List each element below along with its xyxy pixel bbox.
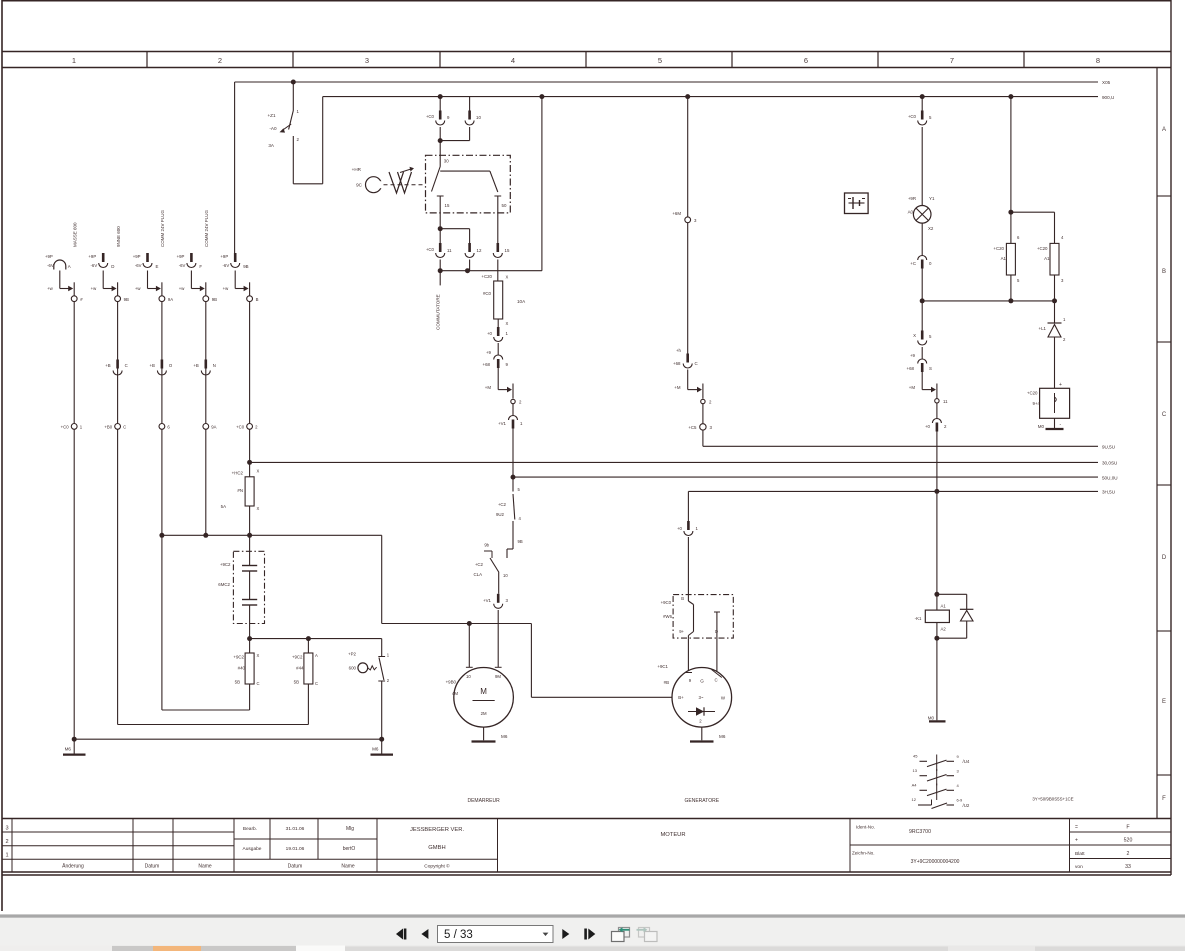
- wire from S1 to bus 15: [293, 97, 322, 184]
- svg-text:C: C: [123, 425, 126, 430]
- svg-text:#N: #N: [237, 488, 243, 493]
- wire branch 1 down: [73, 429, 75, 739]
- svg-text:+C0: +C0: [426, 114, 435, 119]
- svg-text:B: B: [681, 596, 684, 601]
- label branch 4: [204, 209, 209, 247]
- svg-text:M: M: [480, 687, 487, 696]
- svg-text:Ident-No.: Ident-No.: [856, 825, 875, 830]
- svg-text:+9B0: +9B0: [446, 680, 457, 685]
- svg-text:C: C: [125, 363, 128, 368]
- svg-text:5B: 5B: [235, 680, 240, 685]
- label DEMARREUR: [467, 798, 500, 804]
- svg-text:+68: +68: [483, 362, 491, 367]
- svg-text:G: G: [700, 679, 704, 684]
- plug circle +C5 3: [688, 404, 712, 430]
- svg-text:1: 1: [5, 853, 8, 859]
- wire loop to bus 15: [539, 94, 544, 271]
- svg-text:=: =: [1075, 825, 1078, 831]
- svg-text:X: X: [257, 506, 260, 511]
- svg-text:9+: 9+: [679, 629, 684, 634]
- wire fuse F5 to node: [249, 506, 251, 535]
- plug circle branch 1: [61, 424, 83, 430]
- plug circle branch 4: [203, 424, 217, 430]
- svg-text:N: N: [213, 363, 216, 368]
- connector pin 1: [487, 319, 509, 342]
- svg-text:5A: 5A: [221, 504, 226, 509]
- svg-text:6MC2: 6MC2: [218, 582, 230, 587]
- svg-text:2: 2: [1127, 851, 1130, 857]
- fuse F1: [233, 639, 259, 686]
- lamp Y1: [908, 196, 935, 231]
- svg-text:/U4: /U4: [963, 759, 970, 764]
- svg-text:GENERATORE: GENERATORE: [685, 798, 720, 804]
- connector pin 9: [483, 343, 509, 368]
- svg-text:X: X: [257, 469, 260, 474]
- svg-text:+9P: +9P: [133, 254, 141, 259]
- connector X2 pin 11: [426, 229, 452, 258]
- svg-text:C: C: [714, 678, 717, 683]
- svg-text:3Y+9C200000004200: 3Y+9C200000004200: [911, 859, 960, 865]
- svg-text:#40: #40: [238, 666, 246, 671]
- node circle branch 5: [247, 296, 259, 302]
- plug circle branch 3: [159, 424, 170, 430]
- svg-text:9B: 9B: [212, 297, 217, 302]
- svg-text:+B: +B: [105, 363, 111, 368]
- wire link below connectors: [438, 260, 542, 286]
- key symbol: [352, 167, 426, 193]
- connector branch 5 top: [220, 253, 248, 269]
- svg-text:12: 12: [912, 797, 917, 802]
- svg-text:Ausgabe: Ausgabe: [243, 846, 262, 852]
- node bus15 feed resistors: [1008, 94, 1013, 99]
- svg-text:-6V: -6V: [135, 263, 142, 268]
- relay K1 coil: [915, 592, 950, 638]
- svg-text:+: +: [1059, 382, 1062, 388]
- svg-text:X05: X05: [1102, 80, 1111, 85]
- svg-text:CLA: CLA: [473, 572, 482, 577]
- wire bus 30 (top): [235, 80, 1111, 85]
- svg-text:+9P: +9P: [177, 254, 185, 259]
- svg-text:#B: #B: [664, 680, 669, 685]
- svg-text:Name: Name: [198, 864, 212, 870]
- svg-text:+0: +0: [677, 526, 683, 531]
- wire to contact box: [687, 537, 689, 595]
- svg-text:+L1: +L1: [1039, 326, 1047, 331]
- sensor box B2: [1027, 382, 1070, 428]
- capacitor C1 enclosure: [233, 551, 264, 623]
- svg-text:+9C0: +9C0: [661, 600, 672, 605]
- svg-text:-6V: -6V: [179, 263, 186, 268]
- wire branch 2 to node: [91, 271, 118, 296]
- svg-text:+C: +C: [910, 261, 916, 266]
- node circle branch 2: [115, 296, 129, 302]
- connector X1 pin 9: [426, 97, 450, 125]
- svg-text:+B: +B: [193, 363, 199, 368]
- wire branch 5 to bus: [247, 429, 252, 477]
- svg-text:+9R: +9R: [908, 196, 916, 201]
- svg-text:A0: A0: [908, 210, 914, 215]
- connector pin 5b: [913, 301, 932, 345]
- svg-text:F: F: [1162, 796, 1166, 802]
- svg-text:+h: +h: [676, 348, 682, 353]
- svg-text:+9P: +9P: [45, 254, 53, 259]
- wire branch 3: [161, 302, 163, 424]
- ignition switch B1 enclosure: [426, 155, 511, 213]
- svg-text:-K1: -K1: [915, 616, 922, 621]
- wire bus 15 (top): [323, 95, 1115, 100]
- svg-text:4M: 4M: [452, 691, 458, 696]
- svg-text:13: 13: [913, 768, 918, 773]
- svg-text:D: D: [111, 264, 114, 269]
- wire diode to sensor: [1054, 337, 1056, 388]
- wire to lamp: [921, 127, 923, 206]
- svg-text:10: 10: [466, 674, 471, 679]
- fuse F2: [292, 639, 318, 686]
- svg-text:+M: +M: [485, 385, 492, 390]
- diode V2: [1039, 301, 1066, 342]
- wire joining connectors: [438, 127, 470, 143]
- ignition switch B1 contacts: [432, 155, 507, 213]
- wire branch 5: [249, 302, 251, 424]
- connector pin S: [907, 347, 932, 372]
- svg-text:COMM 24V PLUG: COMM 24V PLUG: [160, 209, 165, 247]
- svg-text:11: 11: [447, 248, 452, 253]
- svg-text:+9C2: +9C2: [220, 562, 231, 567]
- svg-text:+C0: +C0: [908, 114, 917, 119]
- fuse F3 10A: [481, 271, 526, 326]
- svg-text:+9P: +9P: [88, 254, 96, 259]
- node circle branch 1: [71, 296, 83, 302]
- svg-text:COMM 24V PLUG: COMM 24V PLUG: [204, 209, 209, 247]
- changeover contact CLA: [473, 541, 513, 578]
- svg-text:+HR: +HR: [352, 167, 362, 172]
- svg-text:+C5: +C5: [688, 425, 697, 430]
- ground M0 relay: [928, 638, 946, 721]
- node circle branch 3: [159, 296, 173, 302]
- svg-text:+C2: +C2: [475, 562, 484, 567]
- wire: [292, 82, 294, 111]
- node bus15 feed lamp: [920, 94, 925, 99]
- wire to resistor link node: [920, 269, 925, 304]
- svg-text:+C20: +C20: [993, 246, 1004, 251]
- svg-text:3Y+50/9B0S5S+1CE: 3Y+50/9B0S5S+1CE: [1032, 797, 1073, 802]
- svg-text:B: B: [256, 297, 259, 302]
- svg-text:33: 33: [1125, 864, 1131, 870]
- ground generator: [690, 727, 726, 741]
- wire branch 4 to node: [179, 271, 206, 296]
- wire bus 30,0SU: [250, 461, 1117, 466]
- svg-text:+B: +B: [150, 363, 156, 368]
- node circle 2: [701, 399, 712, 404]
- svg-text:M6: M6: [372, 747, 379, 752]
- wire branch 3 to node: [135, 271, 162, 296]
- svg-text:9A: 9A: [168, 297, 173, 302]
- label branch 3: [160, 209, 165, 247]
- svg-text:MOTEUR: MOTEUR: [660, 832, 685, 838]
- connector D+ feed: [677, 521, 699, 536]
- connector C: [673, 348, 698, 368]
- svg-text:E: E: [156, 264, 159, 269]
- svg-text:#W6: #W6: [663, 614, 672, 619]
- svg-text:+68: +68: [673, 361, 681, 366]
- wire bus to regulator contact: [687, 491, 689, 521]
- svg-text:8: 8: [1096, 56, 1100, 65]
- svg-text:-6V: -6V: [91, 263, 98, 268]
- svg-text:-A0: -A0: [269, 126, 277, 131]
- svg-text:X: X: [506, 321, 509, 326]
- wire lamp to connector: [921, 223, 923, 255]
- svg-text:9U,5U: 9U,5U: [1102, 445, 1115, 450]
- svg-text:4: 4: [511, 56, 515, 65]
- wire ground line M6: [72, 737, 385, 742]
- svg-text:A1: A1: [941, 604, 947, 609]
- wire branch 2 down to fuse F2: [118, 429, 309, 724]
- svg-text:X: X: [257, 653, 260, 658]
- wire node line: [159, 533, 381, 538]
- svg-text:+9C2: +9C2: [292, 655, 303, 660]
- regulator contact: [661, 595, 720, 672]
- svg-text:+C20: +C20: [481, 274, 492, 279]
- pushbutton S600: [348, 652, 390, 684]
- svg-text:19.01.06: 19.01.06: [286, 846, 305, 852]
- svg-text:11: 11: [943, 399, 948, 404]
- svg-text:M0: M0: [1038, 424, 1045, 429]
- svg-text:+9: +9: [486, 350, 492, 355]
- switch S2 (start interlock): [496, 477, 523, 544]
- svg-text:+V1: +V1: [483, 598, 491, 603]
- svg-text:-6V: -6V: [47, 263, 54, 268]
- wire branch 4: [205, 302, 207, 424]
- svg-text:M6: M6: [719, 734, 726, 739]
- connector branch 2 top: [88, 253, 114, 269]
- svg-text:9+4: 9+4: [1033, 401, 1041, 406]
- svg-text:50U,0U: 50U,0U: [1102, 475, 1118, 480]
- svg-text:Mlg: Mlg: [346, 826, 354, 832]
- svg-text:B+: B+: [678, 695, 684, 700]
- wire branch 2: [117, 302, 119, 424]
- svg-text:+C0: +C0: [61, 425, 70, 430]
- svg-text:3~: 3~: [698, 695, 703, 700]
- svg-text:#C0: #C0: [483, 291, 492, 296]
- node circle 11: [935, 399, 948, 404]
- svg-text:45: 45: [913, 754, 918, 759]
- wire down to resistors: [1008, 97, 1054, 244]
- resistor R2: [1037, 235, 1064, 283]
- ground M6 right: [371, 739, 394, 754]
- wire with arrow junction: [485, 368, 513, 399]
- svg-text:A: A: [315, 653, 318, 658]
- svg-text:+Z1: +Z1: [267, 113, 275, 118]
- ground M6 left: [63, 739, 86, 754]
- svg-text:5 / 33: 5 / 33: [444, 929, 473, 941]
- svg-text:DEMARREUR: DEMARREUR: [467, 798, 500, 804]
- svg-text:+w: +w: [179, 286, 186, 291]
- label branch 1: [72, 222, 77, 247]
- plug circle branch 2: [104, 424, 126, 430]
- svg-text:15: 15: [445, 203, 450, 208]
- svg-text:9NNE 600: 9NNE 600: [116, 226, 121, 247]
- svg-text:JESSBERGER VER.: JESSBERGER VER.: [410, 827, 465, 833]
- svg-text:#44: #44: [296, 666, 304, 671]
- svg-text:+C20: +C20: [1027, 391, 1038, 396]
- svg-text:+HC2: +HC2: [232, 471, 244, 476]
- svg-text:F: F: [199, 264, 202, 269]
- wire to bus 9U5U: [702, 430, 704, 446]
- svg-text:+9P: +9P: [220, 254, 228, 259]
- svg-text:600: 600: [349, 666, 357, 671]
- svg-text:30,0SU: 30,0SU: [1102, 461, 1117, 466]
- circuit breaker S1 5A: [267, 109, 299, 148]
- svg-text:9B: 9B: [518, 539, 523, 544]
- wire with arrow junction 3: [909, 372, 937, 399]
- wire branch 1: [73, 302, 75, 424]
- wire branch 3 down: [162, 429, 250, 710]
- svg-text:+: +: [1075, 838, 1078, 844]
- svg-text:X2: X2: [928, 226, 934, 231]
- ground starter motor: [472, 727, 508, 741]
- svg-text:Datum: Datum: [145, 864, 160, 870]
- connector branch 4 mid: [193, 360, 216, 376]
- connector branch 3 mid: [150, 360, 173, 376]
- svg-text:3A: 3A: [268, 143, 275, 148]
- wire to relay K1: [934, 432, 939, 595]
- svg-text:5B: 5B: [294, 680, 299, 685]
- connector branch 4 top: [177, 253, 203, 269]
- svg-text:+C2: +C2: [498, 502, 507, 507]
- starter motor M1: [446, 667, 514, 727]
- svg-text:6-9: 6-9: [957, 798, 964, 803]
- connector X1 pin 10: [465, 97, 481, 125]
- svg-text:C: C: [695, 361, 698, 366]
- svg-text:M0: M0: [928, 716, 935, 721]
- wire contact to generator D+: [685, 638, 692, 672]
- svg-text:+9C2: +9C2: [233, 655, 244, 660]
- svg-text:9b: 9b: [484, 543, 489, 548]
- svg-text:15: 15: [505, 248, 510, 253]
- svg-text:9C: 9C: [356, 183, 363, 188]
- svg-text:Name: Name: [341, 864, 355, 870]
- plug circle branch 5: [236, 424, 258, 430]
- svg-text:+C20: +C20: [1037, 246, 1048, 251]
- svg-text:9M: 9M: [495, 674, 501, 679]
- wire bus 50U,0U: [513, 475, 1118, 480]
- svg-text:A4: A4: [912, 783, 918, 788]
- svg-text:+P2: +P2: [348, 652, 356, 657]
- svg-text:9B: 9B: [124, 297, 129, 302]
- svg-text:X: X: [913, 333, 916, 338]
- svg-text:Blatt: Blatt: [1075, 851, 1085, 857]
- svg-text:+w: +w: [223, 286, 230, 291]
- wire plug to connector: [687, 223, 689, 354]
- wire bus 3H,5U: [688, 490, 1115, 495]
- connector X2 pin 15: [493, 213, 510, 258]
- wire node to motor feed: [382, 535, 672, 697]
- node bus15 feed 3: [685, 94, 690, 99]
- svg-text:Datum: Datum: [288, 864, 303, 870]
- svg-text:5: 5: [658, 56, 662, 65]
- connector V1 pin 1: [498, 404, 523, 429]
- wire to pushbutton: [381, 639, 383, 657]
- svg-text:MASSE 600: MASSE 600: [72, 222, 77, 247]
- connector pin 2: [925, 403, 947, 432]
- svg-text:M6: M6: [501, 734, 508, 739]
- svg-text:C: C: [315, 681, 318, 686]
- svg-text:D: D: [1162, 555, 1167, 561]
- svg-text:A: A: [68, 264, 71, 269]
- svg-text:10: 10: [476, 115, 481, 120]
- capacitor C1: [218, 535, 257, 638]
- wire to connector column 2: [234, 82, 236, 253]
- svg-text:+6M: +6M: [672, 211, 681, 216]
- wire bus 9U,5U: [703, 445, 1115, 450]
- diode V3 across relay coil: [934, 594, 973, 640]
- svg-text:+9: +9: [910, 353, 916, 358]
- svg-text:31.01.06: 31.01.06: [286, 826, 305, 832]
- svg-text:-6V: -6V: [223, 263, 230, 268]
- wire resistors to link: [922, 275, 1057, 303]
- svg-text:E: E: [1162, 699, 1166, 705]
- label GENERATORE: [685, 798, 720, 804]
- svg-text:50: 50: [502, 203, 507, 208]
- svg-text:1: 1: [72, 56, 76, 65]
- svg-text:+B0: +B0: [104, 425, 112, 430]
- svg-text:B: B: [1162, 269, 1166, 275]
- relay contact group: [912, 754, 970, 809]
- svg-text:2: 2: [5, 839, 8, 845]
- svg-text:Bearb.: Bearb.: [243, 826, 257, 832]
- svg-text:Zeichn-No.: Zeichn-No.: [852, 851, 874, 856]
- svg-text:10: 10: [503, 573, 508, 578]
- svg-text:12: 12: [477, 248, 482, 253]
- svg-text:bertO: bertO: [343, 846, 356, 852]
- wire pushbutton to ground line: [381, 681, 383, 739]
- wire with arrow junction 2: [674, 370, 703, 399]
- svg-text:+V1: +V1: [498, 421, 506, 426]
- svg-text:9U2: 9U2: [496, 512, 505, 517]
- svg-text:/U2: /U2: [963, 803, 970, 808]
- svg-text:GMBH: GMBH: [428, 845, 445, 851]
- wire branch 1 to node: [47, 271, 74, 296]
- svg-text:Änderung: Änderung: [62, 863, 84, 870]
- svg-text:9B: 9B: [243, 264, 248, 269]
- svg-text:2M: 2M: [481, 711, 487, 716]
- wire below ignition switch: [438, 213, 470, 231]
- resistor R1: [993, 212, 1020, 283]
- svg-text:+68: +68: [907, 366, 915, 371]
- svg-text:C: C: [1162, 412, 1167, 418]
- node bus15 / ignition feed: [438, 94, 443, 99]
- svg-text:3: 3: [365, 56, 369, 65]
- svg-text:Copyright ©: Copyright ©: [424, 863, 450, 870]
- svg-text:C: C: [257, 681, 260, 686]
- wire branch 4 down: [205, 429, 207, 535]
- label wire code: [1032, 797, 1073, 802]
- svg-text:30: 30: [444, 159, 449, 164]
- svg-text:10A: 10A: [517, 299, 526, 304]
- svg-text:+0: +0: [487, 331, 493, 336]
- connector branch 1 top: [45, 254, 71, 270]
- svg-text:900,U: 900,U: [1102, 95, 1114, 100]
- wire branch 5 to node: [223, 271, 250, 296]
- svg-text:+9C1: +9C1: [657, 664, 668, 669]
- svg-text:+w: +w: [91, 286, 98, 291]
- svg-text:2: 2: [218, 56, 222, 65]
- node on bus 30: [291, 80, 296, 85]
- connector branch 2 mid: [105, 360, 128, 376]
- battery icon: [845, 193, 869, 214]
- ground M0 sensor: [1038, 418, 1064, 429]
- svg-text:Y1: Y1: [929, 196, 935, 201]
